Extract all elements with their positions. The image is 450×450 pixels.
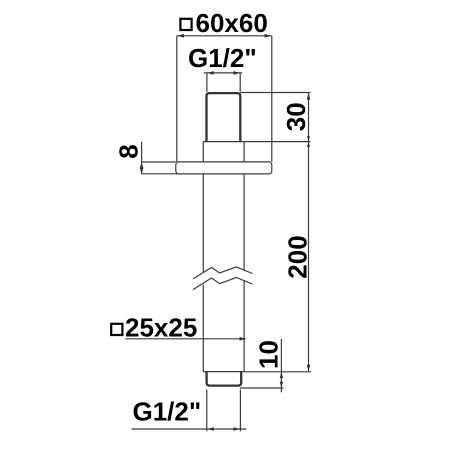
extension connector left G1/2 top — [206, 73, 208, 92]
arrow 30 bottom — [307, 136, 310, 141]
dimension vertical 8 — [141, 142, 143, 175]
tube upper left edge — [202, 142, 204, 162]
extension connector right G1/2 top — [239, 73, 241, 92]
extension line nipple right down — [239, 390, 241, 432]
dimension line G1/2 bottom — [132, 428, 247, 430]
svg-text:25x25: 25x25 — [125, 313, 197, 343]
extension line left 60x60 — [176, 36, 178, 162]
arrow right G1/2 bottom — [234, 427, 241, 431]
extension line right 60x60 — [271, 36, 273, 162]
arrow 30 top — [307, 93, 311, 100]
extension line nipple left down — [206, 390, 208, 432]
break line upper — [193, 267, 252, 279]
label 25x25 with square symbol — [111, 313, 197, 343]
label 60x60 with square symbol — [180, 8, 267, 38]
tube right edge below flange — [243, 174, 245, 270]
svg-text:8: 8 — [113, 144, 143, 158]
leader arrow 25x25 — [240, 337, 247, 341]
leader line 25x25 — [125, 338, 245, 340]
svg-text:200: 200 — [283, 235, 313, 278]
tube left edge below flange — [202, 174, 204, 272]
extension line nipple bottom right — [240, 387, 284, 389]
arrow 200 bottom — [307, 365, 311, 372]
nipple outline thick — [207, 372, 242, 386]
arrow left G1/2 top — [207, 71, 214, 75]
tube upper right edge — [243, 142, 245, 162]
svg-text:60x60: 60x60 — [196, 8, 268, 38]
arrow 200 top — [307, 142, 310, 147]
extension line 8 bottom — [142, 173, 179, 175]
arrow right G1/2 top — [233, 71, 240, 75]
svg-text:G1/2": G1/2" — [133, 396, 202, 426]
svg-text:G1/2": G1/2" — [188, 43, 257, 73]
body top line and 30 extension — [203, 141, 311, 143]
arrow right 60x60 — [265, 34, 272, 38]
svg-text:30: 30 — [281, 102, 311, 131]
thread top section outline — [207, 93, 241, 141]
dimension vertical 30 and 200 — [308, 93, 310, 372]
arrow 10 top — [280, 372, 283, 378]
arrow left 60x60 — [177, 34, 184, 38]
tube right edge lower — [243, 281, 245, 372]
arrow left G1/2 bottom — [207, 427, 214, 431]
arrow 8 bottom — [140, 168, 144, 174]
dimension line G1/2 top — [204, 72, 243, 74]
dimension vertical 10 — [280, 339, 282, 392]
arrow 8 top — [140, 162, 144, 168]
extension line 8 top — [142, 161, 176, 163]
tube bottom line — [203, 371, 244, 373]
break line lower — [193, 278, 252, 290]
ceiling flange — [176, 162, 272, 174]
arrow 10 bottom — [280, 382, 283, 388]
extension line thread top right — [240, 92, 310, 94]
extension line tube bottom right — [244, 371, 311, 373]
svg-text:10: 10 — [254, 340, 284, 369]
tube left edge lower — [202, 285, 204, 372]
dimension line 60x60 — [177, 35, 272, 37]
